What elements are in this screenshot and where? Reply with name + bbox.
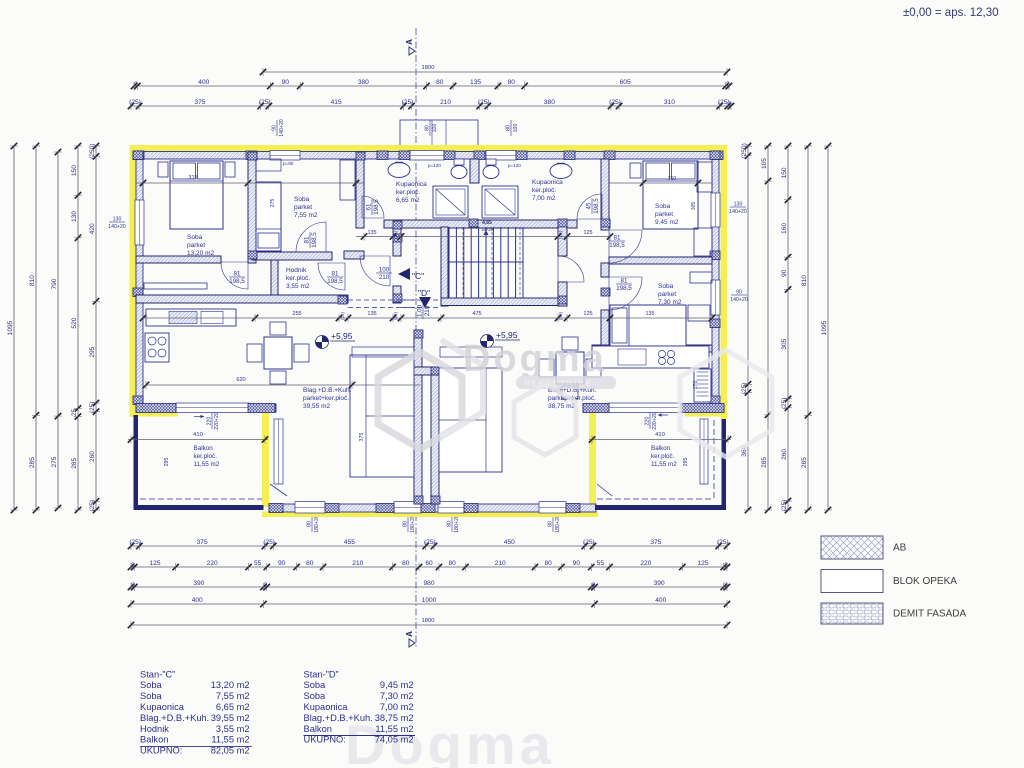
svg-text:Kupaonica: Kupaonica — [396, 181, 427, 188]
svg-text:198,5: 198,5 — [327, 278, 343, 285]
svg-text:55: 55 — [597, 560, 605, 567]
svg-text:80: 80 — [545, 560, 553, 567]
svg-text:380: 380 — [544, 99, 555, 106]
svg-text:10: 10 — [131, 582, 137, 588]
svg-text:parket: parket — [187, 242, 205, 249]
svg-text:420: 420 — [89, 223, 96, 234]
svg-text:1800: 1800 — [422, 618, 435, 624]
svg-text:(25): (25) — [583, 539, 595, 546]
svg-text:90: 90 — [573, 560, 581, 567]
svg-text:7,00 m2: 7,00 m2 — [532, 195, 556, 202]
svg-text:81: 81 — [304, 236, 311, 243]
svg-text:(25): (25) — [263, 539, 275, 546]
svg-text:10: 10 — [723, 582, 729, 588]
svg-text:10: 10 — [725, 81, 731, 87]
svg-text:74,05 m2: 74,05 m2 — [375, 735, 414, 745]
svg-text:220: 220 — [645, 417, 651, 426]
svg-text:60: 60 — [425, 560, 433, 567]
svg-text:90: 90 — [781, 269, 788, 277]
svg-text:310: 310 — [668, 176, 677, 182]
svg-text:135: 135 — [646, 311, 655, 317]
svg-text:81: 81 — [614, 235, 621, 242]
svg-text:295: 295 — [89, 346, 96, 357]
svg-text:90: 90 — [736, 290, 742, 296]
svg-text:3,55 m2: 3,55 m2 — [216, 724, 250, 734]
svg-text:80: 80 — [307, 521, 313, 527]
svg-text:810: 810 — [29, 275, 36, 286]
svg-text:7,55 m2: 7,55 m2 — [216, 691, 250, 701]
svg-text:198,5: 198,5 — [311, 232, 318, 248]
svg-text:80: 80 — [449, 560, 457, 567]
svg-text:38,75 m2: 38,75 m2 — [548, 403, 575, 410]
svg-text:160: 160 — [781, 223, 788, 234]
svg-text:140+20: 140+20 — [729, 209, 747, 215]
svg-text:275: 275 — [51, 456, 58, 467]
svg-text:7,00 m2: 7,00 m2 — [380, 702, 414, 712]
svg-text:(25): (25) — [424, 539, 436, 546]
svg-text:310: 310 — [664, 99, 675, 106]
svg-text:100: 100 — [379, 267, 390, 274]
svg-text:90: 90 — [278, 560, 286, 567]
svg-text:105: 105 — [761, 158, 768, 169]
svg-text:Dogma: Dogma — [463, 338, 607, 380]
svg-text:295: 295 — [683, 458, 689, 467]
svg-text:135: 135 — [367, 311, 376, 317]
svg-text:135: 135 — [368, 230, 377, 236]
svg-text:82,05 m2: 82,05 m2 — [211, 746, 250, 756]
svg-text:400: 400 — [655, 597, 666, 604]
svg-text:315: 315 — [188, 175, 197, 181]
svg-text:130: 130 — [71, 211, 78, 222]
svg-text:198,5: 198,5 — [616, 285, 632, 292]
svg-text:150: 150 — [71, 165, 78, 176]
svg-text:Soba: Soba — [140, 691, 163, 701]
svg-text:Soba: Soba — [140, 680, 163, 690]
svg-text:Soba: Soba — [655, 203, 671, 210]
svg-text:ker.ploč.: ker.ploč. — [396, 189, 420, 196]
svg-text:9,45 m2: 9,45 m2 — [380, 680, 414, 690]
svg-text:81: 81 — [332, 271, 339, 278]
svg-text:(25): (25) — [393, 230, 398, 239]
svg-text:38,75 m2: 38,75 m2 — [375, 713, 414, 723]
svg-text:parket+ker.ploč.: parket+ker.ploč. — [303, 395, 349, 402]
svg-text:Kupaonica: Kupaonica — [140, 702, 185, 712]
svg-text:(25): (25) — [259, 99, 271, 106]
svg-text:455: 455 — [344, 539, 355, 546]
svg-text:198,5: 198,5 — [609, 242, 625, 249]
svg-text:10: 10 — [134, 81, 140, 87]
svg-text:125: 125 — [584, 230, 593, 236]
svg-text:198,5: 198,5 — [593, 198, 600, 214]
svg-text:(25): (25) — [129, 539, 141, 546]
svg-text:7,30 m2: 7,30 m2 — [380, 691, 414, 701]
svg-text:380: 380 — [358, 79, 369, 86]
svg-text:p=120: p=120 — [508, 163, 521, 168]
svg-text:ker.ploč.: ker.ploč. — [286, 275, 310, 282]
svg-text:125: 125 — [583, 311, 592, 317]
svg-text:11,55 m2: 11,55 m2 — [375, 724, 413, 734]
svg-text:10: 10 — [131, 562, 137, 568]
svg-text:255: 255 — [292, 311, 301, 317]
svg-text:Soba: Soba — [187, 234, 203, 241]
svg-text:140+20: 140+20 — [108, 224, 126, 230]
svg-text:125: 125 — [697, 560, 708, 567]
svg-text:±0,00 = aps. 12,30: ±0,00 = aps. 12,30 — [903, 7, 999, 19]
svg-text:(25): (25) — [717, 539, 729, 546]
svg-text:p=80: p=80 — [283, 161, 294, 166]
svg-text:1095: 1095 — [821, 320, 828, 335]
svg-text:140+20: 140+20 — [279, 119, 285, 137]
svg-text:285: 285 — [801, 457, 808, 468]
svg-text:375: 375 — [194, 99, 205, 106]
svg-text:80: 80 — [447, 521, 453, 527]
svg-text:220: 220 — [640, 560, 651, 567]
svg-text:ker.ploč.: ker.ploč. — [651, 453, 675, 460]
svg-text:390: 390 — [654, 580, 665, 587]
svg-text:3,55 m2: 3,55 m2 — [286, 283, 310, 290]
svg-text:6,65 m2: 6,65 m2 — [216, 702, 250, 712]
svg-text:13,20 m2: 13,20 m2 — [187, 250, 214, 257]
svg-text:6,65 m2: 6,65 m2 — [396, 197, 420, 204]
svg-text:275: 275 — [270, 199, 276, 208]
svg-text:10: 10 — [723, 562, 729, 568]
svg-text:198,5: 198,5 — [229, 278, 245, 285]
svg-text:Blag.+D.B.+Kuh.: Blag.+D.B.+Kuh. — [304, 713, 373, 723]
svg-text:p=120: p=120 — [428, 163, 441, 168]
svg-text:400: 400 — [192, 597, 203, 604]
svg-text:61: 61 — [366, 203, 373, 210]
svg-text:Balkon: Balkon — [651, 445, 671, 452]
svg-text:(25): (25) — [609, 99, 621, 106]
svg-text:11,55 m2: 11,55 m2 — [211, 735, 249, 745]
svg-text:UKUPNO:: UKUPNO: — [304, 735, 346, 745]
svg-text:100: 100 — [513, 124, 519, 133]
svg-text:210: 210 — [440, 99, 451, 106]
svg-text:220+20: 220+20 — [652, 412, 658, 430]
svg-text:130: 130 — [734, 202, 743, 208]
svg-text:(250): (250) — [89, 143, 96, 158]
svg-text:UKUPNO:: UKUPNO: — [140, 746, 182, 756]
svg-text:220+20: 220+20 — [214, 412, 220, 430]
svg-text:100: 100 — [432, 124, 438, 133]
svg-text:25: 25 — [71, 408, 78, 416]
svg-text:(25): (25) — [89, 401, 96, 413]
svg-text:80: 80 — [508, 79, 516, 86]
svg-text:Stan-”D”: Stan-”D” — [304, 669, 339, 679]
svg-text:Balkon: Balkon — [140, 735, 168, 745]
svg-text:410: 410 — [193, 432, 203, 438]
svg-text:A: A — [405, 631, 414, 637]
svg-text:170: 170 — [693, 381, 699, 390]
svg-text:285: 285 — [71, 457, 78, 468]
svg-text:80: 80 — [425, 125, 431, 131]
svg-text:Stan-”C”: Stan-”C” — [140, 669, 175, 679]
svg-text:parket: parket — [294, 204, 312, 211]
svg-text:475: 475 — [472, 311, 481, 317]
svg-text:1800: 1800 — [422, 65, 435, 71]
svg-text:A: A — [405, 39, 414, 45]
svg-text:285: 285 — [29, 457, 36, 468]
svg-text:Blag.+D.B.+Kuh.: Blag.+D.B.+Kuh. — [303, 387, 352, 394]
svg-text:305: 305 — [691, 202, 697, 211]
svg-text:Balkon: Balkon — [194, 445, 214, 452]
svg-text:125: 125 — [149, 560, 160, 567]
svg-text:150: 150 — [781, 167, 788, 178]
svg-text:Soba: Soba — [304, 680, 327, 690]
svg-text:180+20: 180+20 — [314, 515, 320, 533]
svg-text:16×29: 16×29 — [481, 227, 493, 232]
svg-text:135: 135 — [470, 79, 481, 86]
svg-text:Soba: Soba — [294, 196, 310, 203]
svg-text:375: 375 — [359, 433, 365, 442]
svg-text:"C": "C" — [412, 271, 424, 281]
svg-text:(25): (25) — [558, 311, 563, 320]
svg-text:parket: parket — [658, 291, 676, 298]
svg-text:410: 410 — [655, 432, 665, 438]
svg-text:Soba: Soba — [658, 283, 674, 290]
svg-text:7,55 m2: 7,55 m2 — [294, 212, 318, 219]
svg-text:11,55 m2: 11,55 m2 — [651, 461, 677, 468]
svg-text:39,55 m2: 39,55 m2 — [211, 713, 250, 723]
svg-text:(25): (25) — [393, 311, 398, 320]
svg-text:210: 210 — [379, 274, 390, 281]
svg-text:81: 81 — [621, 278, 628, 285]
svg-text:80: 80 — [403, 521, 409, 527]
svg-text:(25): (25) — [129, 99, 141, 106]
svg-text:415: 415 — [331, 99, 342, 106]
svg-text:"D": "D" — [418, 288, 430, 298]
svg-text:305: 305 — [781, 338, 788, 349]
svg-text:260: 260 — [89, 451, 96, 462]
svg-text:1,00: 1,00 — [417, 304, 424, 317]
svg-text:180+20: 180+20 — [555, 515, 561, 533]
svg-text:180+20: 180+20 — [454, 515, 460, 533]
svg-text:90: 90 — [282, 79, 290, 86]
svg-text:81: 81 — [234, 271, 241, 278]
svg-text:DEMIT FASADA: DEMIT FASADA — [893, 609, 966, 620]
svg-text:7,30 m2: 7,30 m2 — [658, 299, 682, 306]
svg-text:(25): (25) — [340, 311, 345, 320]
svg-text:(25): (25) — [781, 397, 788, 409]
svg-text:980: 980 — [423, 580, 434, 587]
svg-text:80: 80 — [506, 125, 512, 131]
svg-text:Kupaonica: Kupaonica — [304, 702, 349, 712]
svg-text:810: 810 — [801, 275, 808, 286]
svg-text:45: 45 — [586, 202, 593, 209]
svg-text:Soba: Soba — [304, 691, 327, 701]
svg-text:ker.ploč.: ker.ploč. — [532, 187, 556, 194]
svg-text:(25): (25) — [741, 383, 748, 395]
svg-text:(25): (25) — [558, 230, 563, 239]
svg-text:9,45 m2: 9,45 m2 — [655, 219, 679, 226]
svg-text:295: 295 — [164, 458, 170, 467]
svg-text:80: 80 — [548, 521, 554, 527]
svg-text:10: 10 — [591, 582, 597, 588]
svg-text:Kupaonica: Kupaonica — [532, 179, 563, 186]
svg-text:450: 450 — [504, 539, 515, 546]
svg-text:Balkon: Balkon — [304, 724, 332, 734]
svg-text:1000: 1000 — [422, 597, 437, 604]
svg-text:285: 285 — [761, 457, 768, 468]
svg-text:1095: 1095 — [7, 320, 14, 335]
svg-text:39,55 m2: 39,55 m2 — [303, 403, 330, 410]
svg-text:80: 80 — [306, 560, 314, 567]
svg-text:80: 80 — [436, 79, 444, 86]
svg-text:790: 790 — [51, 278, 58, 289]
svg-text:10: 10 — [727, 101, 733, 107]
svg-text:605: 605 — [620, 79, 631, 86]
svg-text:198,5: 198,5 — [373, 199, 380, 215]
svg-text:Blag.+D.B.+Kuh.: Blag.+D.B.+Kuh. — [140, 713, 209, 723]
svg-text:4,65: 4,65 — [482, 220, 492, 226]
svg-text:ker.ploč.: ker.ploč. — [194, 453, 218, 460]
svg-text:Hodnik: Hodnik — [140, 724, 169, 734]
svg-text:11,55 m2: 11,55 m2 — [194, 461, 220, 468]
svg-text:520: 520 — [71, 317, 78, 328]
svg-text:(25): (25) — [478, 99, 490, 106]
svg-text:10: 10 — [263, 582, 269, 588]
svg-text:Hodnik: Hodnik — [286, 267, 307, 274]
svg-text:130: 130 — [113, 217, 122, 223]
svg-text:210: 210 — [352, 560, 363, 567]
svg-text:260: 260 — [781, 449, 788, 460]
svg-text:(25): (25) — [89, 500, 96, 512]
svg-text:220: 220 — [207, 560, 218, 567]
svg-text:90: 90 — [272, 125, 278, 131]
svg-text:13,20 m2: 13,20 m2 — [211, 680, 250, 690]
svg-text:140+20: 140+20 — [730, 297, 748, 303]
svg-text:180+20: 180+20 — [410, 515, 416, 533]
svg-text:210: 210 — [495, 560, 506, 567]
svg-text:AB: AB — [893, 543, 907, 554]
svg-text:375: 375 — [650, 539, 661, 546]
svg-text:(250): (250) — [741, 143, 748, 158]
svg-text:55: 55 — [254, 560, 262, 567]
svg-text:375: 375 — [197, 539, 208, 546]
svg-text:(25): (25) — [781, 500, 788, 512]
svg-text:80: 80 — [402, 560, 410, 567]
svg-text:+5,95: +5,95 — [331, 331, 353, 341]
svg-text:390: 390 — [193, 580, 204, 587]
svg-text:N E K R E T N I N E: N E K R E T N I N E — [524, 379, 591, 388]
svg-text:620: 620 — [236, 377, 245, 383]
svg-text:220: 220 — [207, 417, 213, 426]
svg-text:400: 400 — [198, 79, 209, 86]
svg-text:BLOK OPEKA: BLOK OPEKA — [893, 576, 957, 587]
svg-text:parket: parket — [655, 211, 673, 218]
svg-text:(25): (25) — [402, 99, 414, 106]
